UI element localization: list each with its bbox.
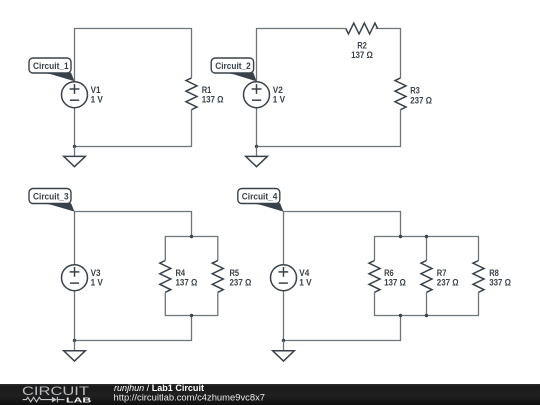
wire: circuit4 middle branch top lead [426, 237, 428, 261]
svg-text:Circuit_1: Circuit_1 [33, 61, 69, 71]
resistor R8 [473, 261, 484, 293]
svg-text:137 Ω: 137 Ω [176, 277, 198, 288]
junction dot circuit4 R7 top [425, 235, 428, 238]
svg-text:237 Ω: 237 Ω [230, 277, 252, 288]
voltage source V1 [62, 82, 88, 108]
ground symbol circuit4 [273, 341, 295, 362]
svg-text:1 V: 1 V [273, 94, 286, 105]
junction dot circuit4 feed top [399, 235, 402, 238]
svg-text:237 Ω: 237 Ω [410, 94, 432, 105]
wire: circuit4 parallel bottom bar [375, 293, 479, 316]
wire: circuit4 top rail [284, 212, 401, 265]
junction dot circuit3 parallel bottom [190, 314, 193, 317]
wire: circuit2 bottom rail [257, 108, 401, 147]
svg-text:137 Ω: 137 Ω [351, 49, 373, 60]
voltage source V2 [244, 82, 270, 108]
wire: circuit1 bottom rail [75, 108, 192, 147]
wire: circuit2 top rail right [376, 29, 401, 78]
voltage source V3 [62, 265, 88, 291]
wire: circuit4 bottom rail [284, 291, 401, 341]
svg-text:Circuit_3: Circuit_3 [33, 192, 69, 202]
svg-text:137 Ω: 137 Ω [384, 277, 406, 288]
svg-text:237 Ω: 237 Ω [437, 277, 459, 288]
svg-text:1 V: 1 V [91, 277, 104, 288]
node label Circuit_3 callout [29, 189, 75, 212]
ground symbol circuit2 [246, 147, 268, 167]
wire: circuit4 parallel top bar [375, 237, 479, 261]
svg-text:137 Ω: 137 Ω [202, 94, 224, 105]
node label Circuit_2 callout [211, 58, 256, 81]
junction dot circuit3 parallel top [190, 235, 193, 238]
wire: circuit3 bottom rail [75, 291, 192, 341]
resistor R4 [160, 261, 171, 293]
wire: circuit3 parallel top bar [165, 237, 218, 261]
wire: circuit3 parallel bottom bar [165, 293, 218, 316]
ground symbol circuit1 [64, 147, 86, 167]
CircuitLab logo resistor zigzag and diode [23, 397, 65, 403]
junction dot circuit4 ground node [282, 339, 285, 342]
wire: circuit4 middle branch bottom lead [426, 293, 428, 316]
node label Circuit_1 callout [29, 58, 75, 81]
svg-text:1 V: 1 V [299, 277, 312, 288]
resistor R1 [186, 78, 197, 110]
ground symbol circuit3 [64, 341, 86, 362]
resistor R3 [395, 78, 406, 110]
svg-text:Circuit_4: Circuit_4 [242, 192, 278, 202]
junction dot circuit1 ground node [73, 145, 76, 148]
svg-text:337 Ω: 337 Ω [489, 277, 511, 288]
wire: circuit2 top rail left [257, 29, 346, 82]
svg-text:Circuit_2: Circuit_2 [215, 61, 251, 71]
resistor R6 [369, 261, 380, 293]
wire: circuit3 top rail [75, 212, 192, 265]
resistor R2 [346, 23, 378, 34]
resistor R5 [212, 261, 223, 293]
resistor R7 [421, 261, 432, 293]
junction dot circuit2 ground node [255, 145, 258, 148]
junction dot circuit4 feed bottom [399, 314, 402, 317]
svg-text:http://circuitlab.com/c4zhume9: http://circuitlab.com/c4zhume9vc8x7 [114, 392, 266, 402]
junction dot circuit3 ground node [73, 339, 76, 342]
junction dot circuit4 R7 bottom [425, 314, 428, 317]
svg-text:1 V: 1 V [91, 94, 104, 105]
wire: circuit1 top rail [75, 29, 192, 82]
footer background [0, 384, 540, 405]
svg-text:LAB: LAB [66, 395, 91, 404]
voltage source V4 [271, 265, 297, 291]
node label Circuit_4 callout [238, 189, 284, 212]
